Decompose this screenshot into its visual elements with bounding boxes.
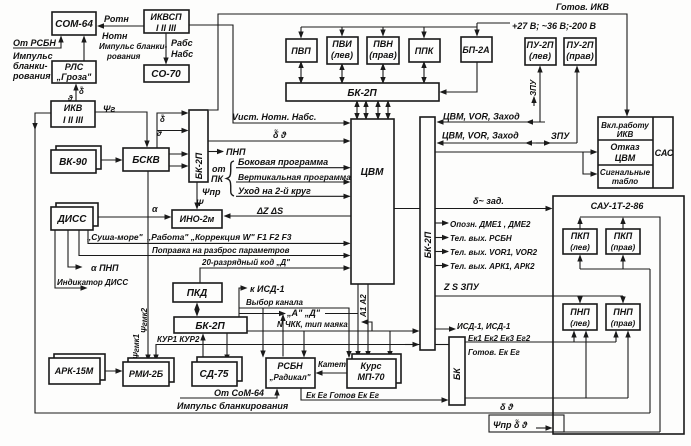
- svg-text:ПВН: ПВН: [373, 39, 393, 49]
- svg-text:(лев): (лев): [570, 243, 590, 252]
- svg-text:ДИСС: ДИСС: [57, 214, 88, 225]
- svg-text:(прав): (прав): [369, 50, 396, 60]
- svg-text:ПУ-2П: ПУ-2П: [526, 40, 554, 50]
- svg-text:δ ϑ: δ ϑ: [500, 402, 514, 412]
- svg-text:Индикатор ДИСС: Индикатор ДИСС: [57, 278, 128, 287]
- svg-text:СО-70: СО-70: [151, 69, 181, 80]
- svg-text:ИКВСП: ИКВСП: [150, 12, 182, 22]
- svg-text:Нотн: Нотн: [102, 31, 128, 41]
- svg-text:ЦВМ: ЦВМ: [361, 167, 385, 178]
- svg-text:ЦВМ: ЦВМ: [615, 153, 636, 163]
- svg-text:δ̃ ϑ: δ̃ ϑ: [273, 129, 287, 140]
- svg-text:„Гроза": „Гроза": [56, 72, 92, 82]
- svg-text:„Радикал": „Радикал": [268, 373, 310, 382]
- svg-text:ПНП: ПНП: [226, 147, 246, 157]
- svg-text:ППК: ППК: [415, 46, 435, 56]
- svg-text:Сигнальные: Сигнальные: [600, 168, 651, 177]
- svg-text:ЦВМ, VOR, Заход: ЦВМ, VOR, Заход: [443, 112, 520, 122]
- svg-text:БК-2П: БК-2П: [347, 88, 377, 99]
- svg-text:Готов. Ек Ег: Готов. Ек Ег: [468, 348, 521, 357]
- svg-text:ПУ-2П: ПУ-2П: [566, 40, 594, 50]
- svg-text:ПК: ПК: [211, 174, 224, 184]
- svg-text:САС: САС: [655, 148, 674, 158]
- svg-text:Вертикальная программа: Вертикальная программа: [238, 172, 351, 182]
- svg-text:(лев): (лев): [331, 50, 353, 60]
- svg-text:ПВП: ПВП: [291, 46, 311, 56]
- svg-text:ЗПУ: ЗПУ: [551, 131, 570, 141]
- svg-text:рования: рования: [106, 52, 141, 61]
- svg-text:Рабс: Рабс: [171, 38, 193, 48]
- svg-text:δ̃: δ̃: [160, 115, 165, 124]
- svg-text:Уход на 2-й круг: Уход на 2-й круг: [238, 186, 311, 196]
- svg-text:ΔZ ΔS: ΔZ ΔS: [256, 206, 283, 216]
- svg-text:БК: БК: [452, 367, 462, 380]
- svg-text:ИНО-2м: ИНО-2м: [180, 214, 215, 224]
- svg-text:А1 А2: А1 А2: [359, 294, 368, 318]
- svg-text:БК-2П: БК-2П: [195, 321, 225, 332]
- svg-text:ИКВ: ИКВ: [64, 103, 83, 113]
- svg-text:Ψпр: Ψпр: [202, 187, 221, 197]
- svg-text:ϑ: ϑ: [156, 129, 162, 138]
- svg-text:Ψ: Ψ: [196, 198, 204, 208]
- svg-text:Готов. ИКВ: Готов. ИКВ: [556, 2, 609, 12]
- svg-text:+27 В; ~36 В;-200 В: +27 В; ~36 В;-200 В: [512, 21, 597, 31]
- svg-text:СД-75: СД-75: [200, 369, 229, 380]
- svg-text:Тел. вых. АРК1, АРК2: Тел. вых. АРК1, АРК2: [450, 262, 535, 271]
- svg-text:Импульс: Импульс: [13, 51, 53, 61]
- svg-text:САУ-1Т-2-86: САУ-1Т-2-86: [591, 201, 645, 211]
- svg-text:Курс: Курс: [361, 361, 382, 371]
- svg-text:ПВИ: ПВИ: [332, 39, 352, 49]
- svg-text:„Работа" „Коррекция W" F1 F2 F: „Работа" „Коррекция W" F1 F2 F3: [146, 232, 292, 242]
- svg-text:От РСБН: От РСБН: [13, 38, 56, 48]
- svg-text:„А" „Д": „А" „Д": [286, 308, 321, 318]
- svg-text:Z S ЗПУ: Z S ЗПУ: [443, 282, 480, 292]
- svg-text:ПКП: ПКП: [571, 231, 590, 241]
- svg-text:δ̃: δ̃: [79, 87, 84, 96]
- svg-text:РМИ-2Б: РМИ-2Б: [129, 369, 164, 379]
- svg-text:Ек1 Ек2 Ек3 Ег2: Ек1 Ек2 Ек3 Ег2: [468, 334, 531, 343]
- svg-text:20-разрядный код „Д": 20-разрядный код „Д": [201, 258, 290, 267]
- svg-text:ИКВ: ИКВ: [617, 130, 634, 139]
- svg-text:БП-2А: БП-2А: [462, 45, 489, 55]
- svg-text:Ротн: Ротн: [104, 14, 129, 24]
- svg-text:ПКП: ПКП: [614, 231, 633, 241]
- svg-text:Катет: Катет: [318, 360, 346, 369]
- svg-text:МП-70: МП-70: [358, 372, 385, 382]
- svg-text:Вкл.работу: Вкл.работу: [601, 121, 649, 130]
- svg-text:δ~ зад.: δ~ зад.: [473, 196, 504, 206]
- svg-text:(лев): (лев): [529, 51, 551, 61]
- svg-text:α ПНП: α ПНП: [91, 263, 119, 273]
- svg-text:от: от: [212, 164, 226, 174]
- svg-text:ПНП: ПНП: [570, 307, 590, 317]
- svg-text:Выбор канала: Выбор канала: [246, 298, 304, 307]
- svg-text:(прав): (прав): [566, 51, 593, 61]
- svg-text:„Суша-море": „Суша-море": [86, 232, 144, 242]
- svg-text:к ИСД-1: к ИСД-1: [250, 284, 285, 294]
- svg-text:КУР1 КУР2: КУР1 КУР2: [157, 335, 200, 344]
- svg-text:I II III: I II III: [63, 115, 84, 125]
- svg-text:Боковая программа: Боковая программа: [238, 157, 328, 167]
- svg-text:Тел. вых. VOR1, VOR2: Тел. вых. VOR1, VOR2: [450, 248, 538, 257]
- svg-text:Ек Ег Готов Ек Ег: Ек Ег Готов Ек Ег: [306, 391, 380, 400]
- svg-text:Поправка на разброс параметров: Поправка на разброс параметров: [152, 246, 290, 255]
- svg-text:бланки-: бланки-: [13, 61, 48, 71]
- svg-text:(прав): (прав): [611, 319, 636, 328]
- svg-text:БК-2П: БК-2П: [194, 152, 204, 179]
- svg-text:Импульс бланкирования: Импульс бланкирования: [177, 401, 289, 411]
- svg-text:Опозн. ДМЕ1 , ДМЕ2: Опозн. ДМЕ1 , ДМЕ2: [450, 220, 531, 229]
- svg-text:ЦВМ, VOR, Заход: ЦВМ, VOR, Заход: [442, 131, 519, 141]
- svg-text:Vист. Нотн. Набс.: Vист. Нотн. Набс.: [232, 112, 316, 122]
- svg-text:ВК-90: ВК-90: [59, 157, 87, 168]
- svg-text:Отказ: Отказ: [610, 142, 640, 152]
- svg-text:БСКВ: БСКВ: [132, 155, 160, 166]
- svg-text:ϑ: ϑ: [67, 94, 73, 103]
- svg-text:От СоМ-64: От СоМ-64: [214, 388, 264, 398]
- svg-text:N ЧКК, тип маяка: N ЧКК, тип маяка: [277, 320, 348, 329]
- svg-text:Набс: Набс: [171, 49, 193, 59]
- svg-text:ЗПУ: ЗПУ: [529, 79, 538, 96]
- svg-text:I II III: I II III: [156, 23, 177, 33]
- svg-text:СОМ-64: СОМ-64: [55, 19, 93, 30]
- svg-text:Импульс бланки-: Импульс бланки-: [99, 42, 167, 51]
- svg-text:ПКД: ПКД: [187, 288, 208, 299]
- svg-text:Ψгмк1: Ψгмк1: [132, 333, 141, 359]
- svg-text:(прав): (прав): [611, 243, 636, 252]
- svg-text:РЛС: РЛС: [65, 62, 84, 72]
- svg-text:Ψгмк2: Ψгмк2: [140, 307, 149, 333]
- svg-text:(лев): (лев): [570, 319, 590, 328]
- svg-text:АРК-15М: АРК-15М: [54, 366, 94, 376]
- svg-text:Тел. вых. РСБН: Тел. вых. РСБН: [450, 234, 512, 243]
- svg-text:Ψпр δ̃ ϑ: Ψпр δ̃ ϑ: [493, 419, 528, 430]
- svg-text:РСБН: РСБН: [277, 361, 303, 371]
- svg-text:ИСД-1, ИСД-1: ИСД-1, ИСД-1: [457, 322, 511, 331]
- svg-text:рования: рования: [12, 71, 51, 81]
- svg-text:α: α: [152, 204, 158, 214]
- svg-text:БК-2П: БК-2П: [423, 231, 433, 258]
- svg-text:ПНП: ПНП: [613, 307, 633, 317]
- svg-text:табло: табло: [612, 177, 638, 186]
- svg-text:Ψг: Ψг: [103, 104, 115, 114]
